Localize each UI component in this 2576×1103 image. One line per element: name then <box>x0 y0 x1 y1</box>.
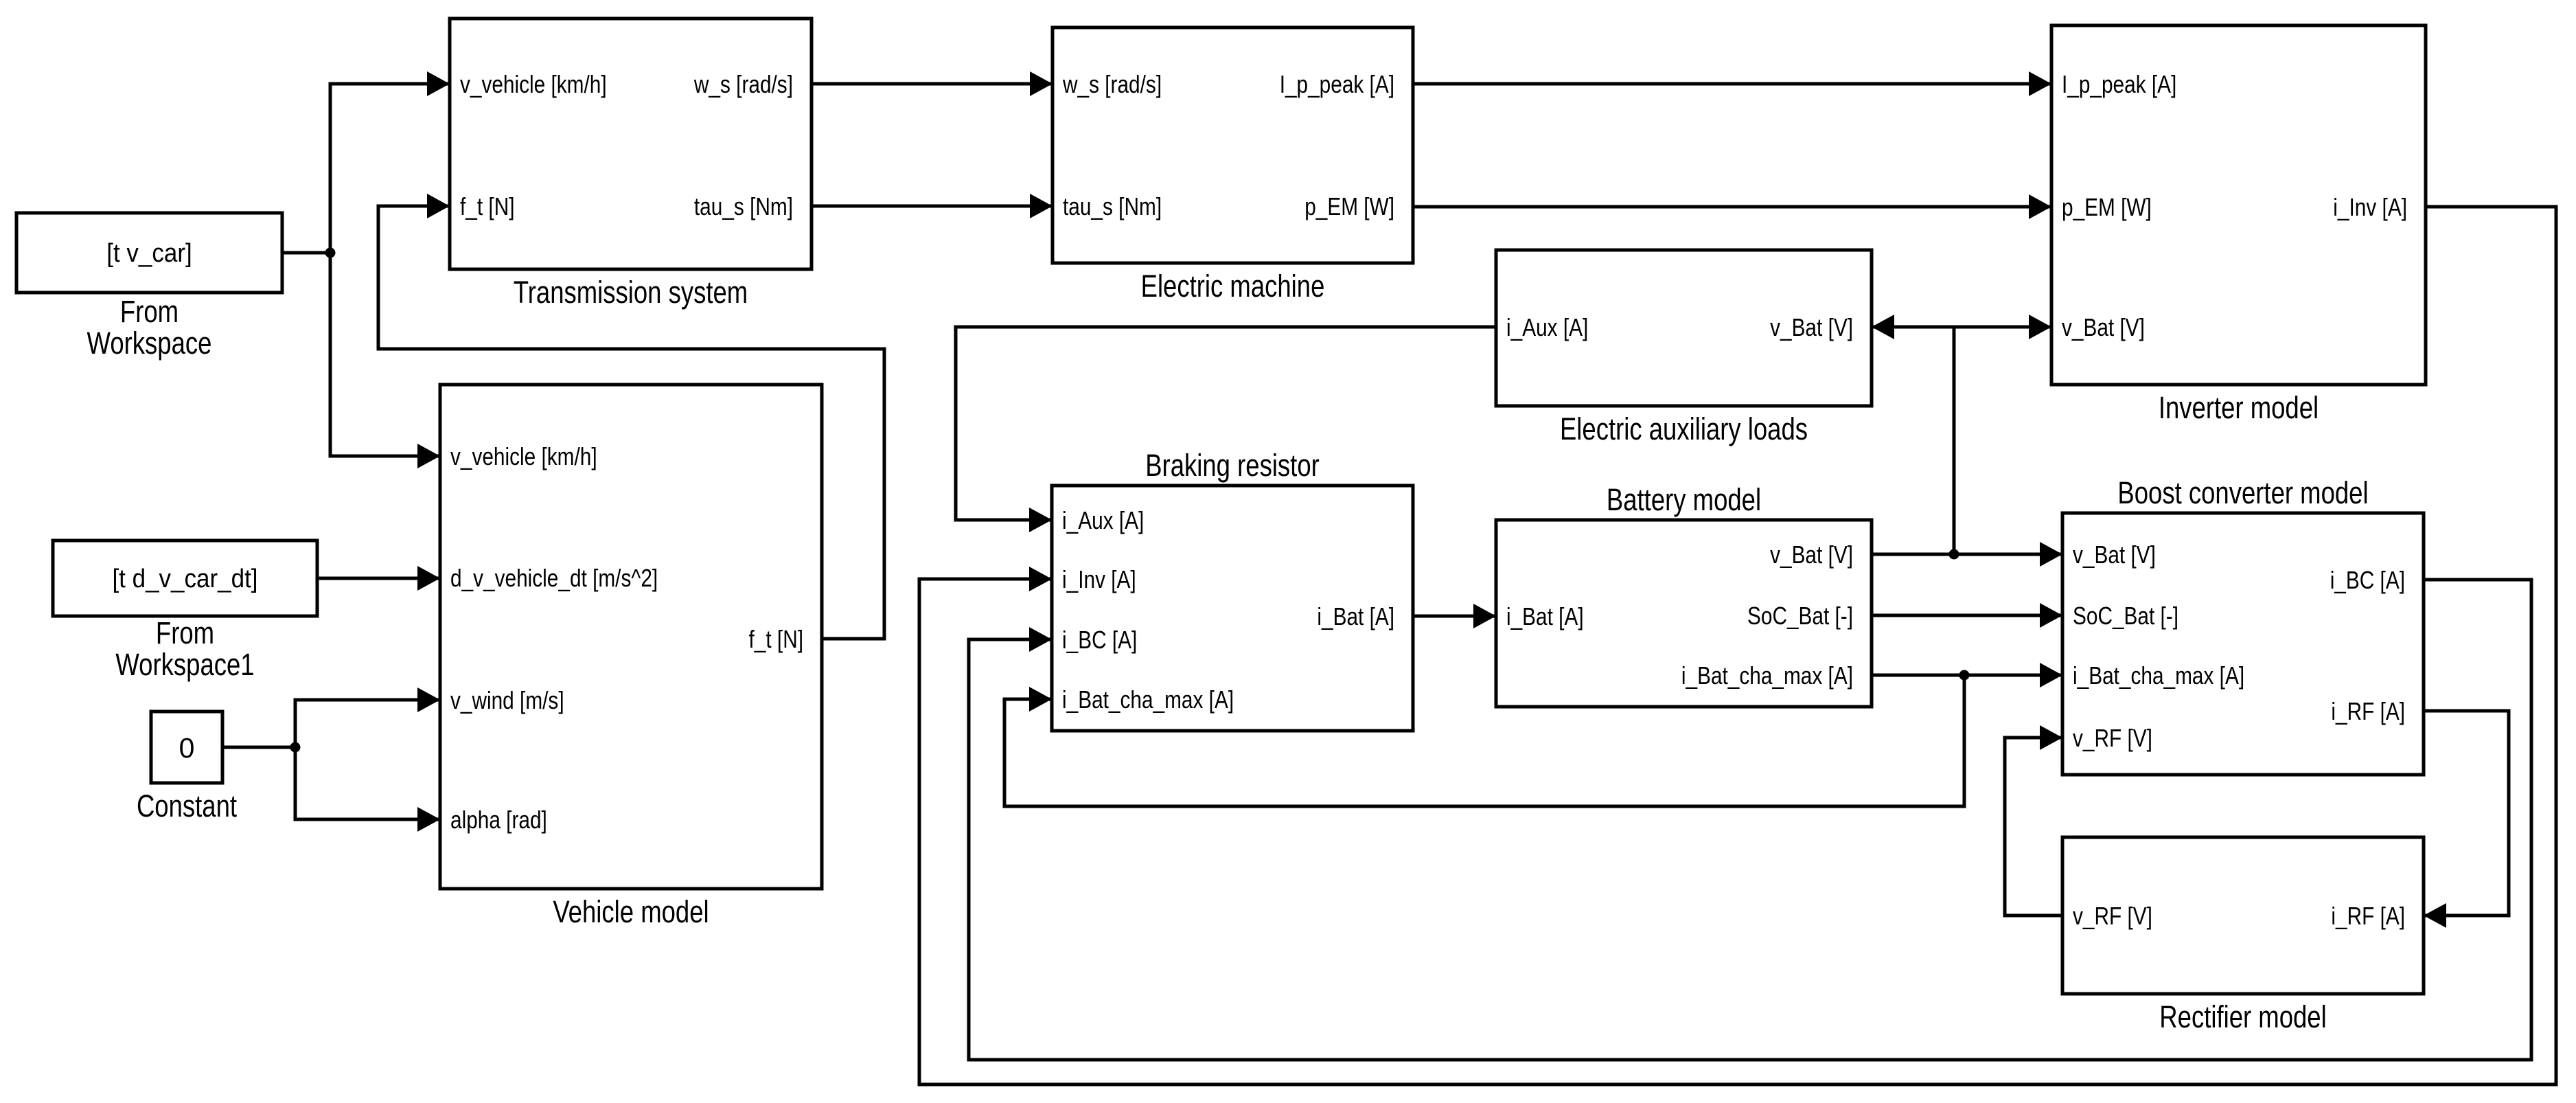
svg-text:tau_s [Nm]: tau_s [Nm] <box>1063 192 1162 220</box>
svg-text:I_p_peak [A]: I_p_peak [A] <box>2062 70 2176 98</box>
svg-text:i_Bat_cha_max [A]: i_Bat_cha_max [A] <box>1681 661 1853 690</box>
svg-text:i_Bat [A]: i_Bat [A] <box>1317 602 1394 630</box>
svg-text:i_Aux [A]: i_Aux [A] <box>1062 506 1144 534</box>
Vehicle model subsystem block <box>440 385 822 889</box>
svg-text:i_Inv [A]: i_Inv [A] <box>1062 565 1136 593</box>
wire v_Bat tee right into Inverter model v_Bat input <box>1954 326 2051 329</box>
Battery model subsystem block <box>1496 520 1872 707</box>
wire I_p_peak from Electric machine to Inverter model <box>1413 82 2051 86</box>
wire i_Bat_cha_max branch down and around to Braking resistor i_Bat_cha_max input <box>1004 675 1964 806</box>
svg-text:i_BC [A]: i_BC [A] <box>1062 626 1137 654</box>
svg-text:Constant: Constant <box>137 788 237 823</box>
svg-text:From: From <box>120 294 179 329</box>
wire SoC_Bat from Battery model to Boost converter model <box>1872 614 2062 617</box>
svg-text:Electric auxiliary loads: Electric auxiliary loads <box>1560 411 1808 446</box>
Inverter model subsystem block <box>2051 25 2426 385</box>
wire i_Bat_cha_max from Battery model to Boost converter model with branch junction <box>1872 674 2062 677</box>
Electric machine subsystem block <box>1053 27 1413 263</box>
svg-text:[t v_car]: [t v_car] <box>106 239 192 268</box>
svg-text:Battery model: Battery model <box>1607 482 1761 517</box>
svg-text:i_Aux [A]: i_Aux [A] <box>1506 313 1588 341</box>
Electric auxiliary loads subsystem block <box>1496 250 1872 406</box>
wire from From Workspace1 output to Vehicle model d_v_vehicle_dt input <box>317 577 440 580</box>
wire f_t feedback from Vehicle model output to Transmission system f_t input <box>378 206 884 639</box>
svg-text:tau_s [Nm]: tau_s [Nm] <box>694 192 793 220</box>
wire i_RF from Boost converter model output down into Rectifier model i_RF input <box>2424 711 2509 916</box>
svg-text:v_RF [V]: v_RF [V] <box>2073 724 2152 752</box>
svg-text:v_Bat [V]: v_Bat [V] <box>2073 541 2156 569</box>
wire v_Bat tee left into Electric auxiliary loads v_Bat input <box>1872 326 1954 329</box>
svg-text:[t d_v_car_dt]: [t d_v_car_dt] <box>112 565 257 593</box>
svg-text:d_v_vehicle_dt [m/s^2]: d_v_vehicle_dt [m/s^2] <box>450 564 658 592</box>
svg-text:f_t [N]: f_t [N] <box>749 625 804 653</box>
wire p_EM from Electric machine to Inverter model <box>1413 205 2051 209</box>
svg-text:i_RF [A]: i_RF [A] <box>2331 697 2405 725</box>
svg-text:v_vehicle [km/h]: v_vehicle [km/h] <box>450 442 597 470</box>
svg-text:SoC_Bat [-]: SoC_Bat [-] <box>1747 602 1853 630</box>
wire Constant branch down to Vehicle model alpha input <box>295 747 440 819</box>
svg-text:Boost converter model: Boost converter model <box>2117 475 2368 510</box>
svg-text:From: From <box>156 615 214 650</box>
svg-text:SoC_Bat [-]: SoC_Bat [-] <box>2073 602 2178 630</box>
wire v_Bat from Battery model to Boost converter model with branch junction <box>1872 553 2062 556</box>
From Workspace block [t v_car] <box>16 213 282 293</box>
svg-text:i_Bat_cha_max [A]: i_Bat_cha_max [A] <box>1062 685 1234 714</box>
svg-text:v_RF [V]: v_RF [V] <box>2073 902 2152 930</box>
svg-text:v_Bat [V]: v_Bat [V] <box>1770 541 1853 569</box>
svg-text:Electric machine: Electric machine <box>1141 269 1325 304</box>
svg-text:f_t [N]: f_t [N] <box>460 192 515 220</box>
svg-text:Braking resistor: Braking resistor <box>1145 448 1320 483</box>
wire i_BC from Boost converter model output down and around to Braking resistor i_BC input <box>969 580 2531 1060</box>
Constant block <box>151 712 222 783</box>
svg-text:v_wind [m/s]: v_wind [m/s] <box>450 686 564 714</box>
svg-text:p_EM [W]: p_EM [W] <box>2062 193 2152 221</box>
svg-text:i_Inv [A]: i_Inv [A] <box>2333 193 2407 221</box>
Transmission system subsystem block <box>450 19 812 269</box>
wire from [t v_car] output to branch junction <box>282 251 330 255</box>
svg-text:Vehicle model: Vehicle model <box>553 894 709 929</box>
wire branch junction up to Transmission system v_vehicle input <box>330 84 450 253</box>
svg-text:Transmission system: Transmission system <box>514 275 748 310</box>
wire tau_s from Transmission system to Electric machine <box>812 205 1053 208</box>
svg-text:Inverter model: Inverter model <box>2159 390 2319 425</box>
svg-text:v_Bat [V]: v_Bat [V] <box>2062 313 2145 341</box>
wire i_Inv from Inverter model output down and around to Braking resistor i_Inv input <box>919 207 2556 1084</box>
wire v_Bat branch rising to v_Bat distribution tee <box>1953 327 1956 554</box>
wire branch junction down to Vehicle model v_vehicle input <box>330 253 440 456</box>
svg-text:Rectifier model: Rectifier model <box>2159 999 2326 1034</box>
svg-text:alpha [rad]: alpha [rad] <box>450 806 547 834</box>
svg-text:p_EM [W]: p_EM [W] <box>1304 192 1394 220</box>
svg-text:i_RF [A]: i_RF [A] <box>2331 902 2405 930</box>
svg-text:i_Bat_cha_max [A]: i_Bat_cha_max [A] <box>2073 661 2244 690</box>
From Workspace1 block [t d_v_car_dt] <box>53 541 317 616</box>
wire from Constant output to branch junction <box>222 746 295 749</box>
svg-text:Workspace: Workspace <box>87 326 212 361</box>
svg-text:v_vehicle [km/h]: v_vehicle [km/h] <box>460 70 607 98</box>
svg-text:i_Bat [A]: i_Bat [A] <box>1506 602 1584 630</box>
svg-text:v_Bat [V]: v_Bat [V] <box>1770 313 1853 341</box>
svg-text:0: 0 <box>179 732 195 764</box>
wire v_RF from Rectifier model output up into Boost converter model v_RF input <box>2005 738 2062 916</box>
Braking resistor subsystem block <box>1052 486 1413 731</box>
wire Constant branch up to Vehicle model v_wind input <box>295 700 440 747</box>
Rectifier model subsystem block (mirrored) <box>2062 837 2424 994</box>
svg-text:I_p_peak [A]: I_p_peak [A] <box>1280 70 1394 98</box>
svg-text:i_BC [A]: i_BC [A] <box>2330 566 2405 594</box>
svg-text:Workspace1: Workspace1 <box>115 647 254 682</box>
svg-text:w_s [rad/s]: w_s [rad/s] <box>1062 70 1162 98</box>
svg-text:w_s [rad/s]: w_s [rad/s] <box>693 70 793 98</box>
wire i_Aux from Electric auxiliary loads output to Braking resistor i_Aux input <box>956 327 1496 520</box>
wire w_s from Transmission system to Electric machine <box>812 82 1053 86</box>
wire i_Bat from Braking resistor output to Battery model input <box>1413 615 1496 618</box>
Boost converter model subsystem block <box>2062 513 2424 775</box>
